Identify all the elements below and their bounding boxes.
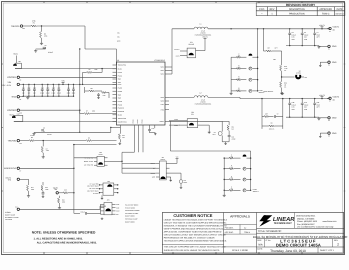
svg-text:IC No.: IC No. [266,239,272,242]
svg-text:OPT: OPT [213,134,216,136]
svg-text:R7: R7 [86,111,88,113]
svg-text:TOM G: TOM G [322,13,330,16]
svg-text:In-Phase: In-Phase [93,193,99,195]
svg-text:R6A: R6A [284,83,287,85]
svg-text:E8: E8 [20,99,22,101]
svg-text:C10: C10 [232,137,235,139]
svg-text:GND: GND [152,177,155,179]
svg-text:E13: E13 [15,207,18,209]
svg-text:SHEET 1 OF 1: SHEET 1 OF 1 [320,249,335,252]
svg-text:MODE: SYNC: MODE: SYNC [84,161,93,163]
svg-text:CLKOUT: CLKOUT [174,49,179,51]
svg-text:E7: E7 [20,170,22,172]
svg-text:APPLICATION. COMPONENT SUBSTI: APPLICATION. COMPONENT SUBSTITUTION AND … [164,231,222,234]
svg-text:CIRCUIT BOARD LAYOUT MAY SIGNI: CIRCUIT BOARD LAYOUT MAY SIGNIFICANTLY A… [164,234,227,237]
svg-text:HI: Vout2 TRK: HI: Vout2 TRK [90,183,99,185]
svg-text:GND: GND [332,45,337,48]
svg-text:MODE/SYNC: MODE/SYNC [4,167,17,170]
svg-text:2.0: 2.0 [238,89,240,91]
svg-text:PGBL: PGBL [184,182,188,184]
svg-text:HI: SYNC PU: HI: SYNC PU [84,158,93,160]
svg-text:0.01uF: 0.01uF [81,212,85,214]
svg-text:DATE:: DATE: [257,247,263,250]
svg-text:CLKIN: CLKIN [176,56,180,58]
svg-text:R15: R15 [64,189,67,191]
svg-text:TP: TP [277,113,279,115]
svg-text:13k: 13k [232,129,235,131]
svg-text:R10: R10 [103,95,106,97]
svg-text:GND: GND [332,132,337,135]
svg-text:AJ: AJ [244,226,246,229]
svg-text:E5: E5 [328,120,330,122]
svg-text:GND: GND [332,61,337,64]
svg-text:06-03-10: 06-03-10 [336,13,345,16]
svg-text:10k: 10k [122,137,125,139]
svg-text:R16: R16 [62,200,65,202]
svg-text:INTERNAL CLAMP: INTERNAL CLAMP [125,219,137,221]
svg-text:NOTE: UNLESS OTHERWISE SPECIFI: NOTE: UNLESS OTHERWISE SPECIFIED [32,230,96,234]
svg-text:PCB DES.: PCB DES. [225,226,234,229]
svg-text:PGND: PGND [137,119,139,123]
svg-text:PGOOD1: PGOOD1 [7,76,17,79]
svg-text:E12: E12 [20,143,23,145]
svg-text:PERFORMANCE OR RELIABILITY. C: PERFORMANCE OR RELIABILITY. CONTACT LINE… [164,237,215,240]
svg-text:VOUT2: VOUT2 [319,94,325,97]
svg-text:R4: R4 [46,148,48,150]
svg-text:E4: E4 [329,101,331,103]
svg-text:GND: GND [12,96,17,99]
svg-text:OPT: OPT [275,48,278,50]
svg-text:TOM H: TOM H [244,231,251,234]
svg-text:R6: R6 [88,137,90,139]
svg-text:TITLE: SCHEMATIC: TITLE: SCHEMATIC [258,230,282,233]
svg-text:PGND: PGND [141,119,143,123]
svg-text:DATE: DATE [337,8,343,11]
svg-text:TRK/SS2: TRK/SS2 [8,139,18,142]
svg-text:OPT: OPT [265,113,268,115]
svg-text:REVISION HISTORY: REVISION HISTORY [286,3,316,7]
svg-text:PGOOD2: PGOOD2 [7,109,17,112]
svg-text:E3: E3 [328,65,330,67]
svg-text:LO: SYNC PD: LO: SYNC PD [84,164,93,166]
svg-text:APP ENG.: APP ENG. [225,231,234,234]
svg-text:TP1: TP1 [184,180,187,182]
svg-text:2N7002: 2N7002 [296,73,301,75]
svg-text:TECHNOLOGY: TECHNOLOGY [274,222,293,225]
svg-text:2: 2 [337,242,339,246]
svg-text:EXTERNAL CLAMP:: EXTERNAL CLAMP: [125,213,139,215]
svg-text:ECO: ECO [259,8,264,11]
svg-text:100k: 100k [31,189,34,191]
svg-text:1. ALL RESISTORS ARE IN OHMS,: 1. ALL RESISTORS ARE IN OHMS, 0603. [34,237,84,240]
svg-text:SCALE = NONE: SCALE = NONE [232,249,249,252]
svg-text:47.5k: 47.5k [284,68,288,70]
svg-text:TECHNOLOGY APPLICATIONS ENGINE: TECHNOLOGY APPLICATIONS ENGINEERING FOR … [164,240,228,243]
svg-text:www.linear.com: www.linear.com [323,220,337,223]
svg-text:100k: 100k [94,69,97,71]
svg-text:PULSE SKIP MODE:: PULSE SKIP MODE: [125,205,139,207]
svg-text:R17: R17 [268,48,271,50]
svg-text:R14: R14 [31,187,34,189]
svg-text:COMP: COMP [174,119,178,121]
svg-text:R11: R11 [232,127,235,129]
svg-text:R5: R5 [89,69,91,71]
svg-text:E9: E9 [20,79,22,81]
svg-text:C25: C25 [152,128,155,130]
svg-text:LINEAR TECHNOLOGY HAS MADE A B: LINEAR TECHNOLOGY HAS MADE A BEST EFFORT… [164,218,228,221]
svg-text:2.0: 2.0 [238,78,240,80]
svg-text:VOUT1: VOUT1 [319,24,325,27]
svg-text:BURST MODE:: BURST MODE: [125,221,136,223]
svg-text:R13: R13 [45,187,48,189]
svg-text:100k: 100k [62,201,65,203]
svg-text:R6B: R6B [284,66,287,68]
svg-text:2.0: 2.0 [231,166,233,168]
svg-text:(OUT OF PHASE): (OUT OF PHASE) [87,191,99,193]
svg-text:U1: U1 [117,59,119,62]
svg-text:2.0: 2.0 [238,55,240,57]
svg-text:C9: C9 [214,132,216,134]
svg-text:470k: 470k [46,150,49,152]
svg-text:HOWEVER, IT REMAINS THE CUSTOM: HOWEVER, IT REMAINS THE CUSTOMER'S RESPO… [164,224,227,227]
svg-text:GND: GND [332,117,337,120]
svg-text:DESCRIPTION: DESCRIPTION [289,8,305,11]
svg-text:VERIFY PROPER AND RELIABLE OPE: VERIFY PROPER AND RELIABLE OPERATION IN … [164,227,225,230]
svg-text:LO: Vout2 TRK: LO: Vout2 TRK [89,188,98,190]
svg-text:L1: L1 [200,23,202,26]
svg-text:(OUT OF PHASE): (OUT OF PHASE) [87,186,99,188]
svg-text:VIN: VIN [8,81,12,84]
svg-text:R12: R12 [122,135,125,137]
svg-text:LTC Confidential-For Customer: LTC Confidential-For Customer Use Only [297,226,333,229]
svg-text:220pF: 220pF [232,139,236,141]
svg-text:TRK/SS1: TRK/SS1 [11,25,21,28]
svg-text:100k: 100k [45,189,48,191]
svg-text:Thursday, June 03, 2010: Thursday, June 03, 2010 [270,249,306,253]
svg-text:100k 1%: 100k 1% [269,128,275,130]
svg-text:BURST MODE:: BURST MODE: [125,216,136,218]
svg-text:Phone: (408)432-1900: Phone: (408)432-1900 [297,220,318,223]
svg-text:E1: E1 [329,31,331,33]
svg-text:2.0: 2.0 [238,66,240,68]
svg-text:L2: L2 [200,91,202,94]
svg-text:Fax: (408)434-0507: Fax: (408)434-0507 [297,223,315,226]
svg-text:2.0: 2.0 [231,188,233,190]
svg-text:2.0: 2.0 [231,177,233,179]
svg-text:LTC3615EUF: LTC3615EUF [154,59,166,62]
svg-text:2.0: 2.0 [231,156,233,158]
svg-text:N/A: N/A [258,244,263,247]
svg-text:E6: E6 [328,135,330,137]
svg-text:R8: R8 [271,123,273,125]
svg-text:E10: E10 [20,112,23,114]
svg-text:THIS CIRCUIT IS PROPRIETARY TO: THIS CIRCUIT IS PROPRIETARY TO LINEAR TE… [164,246,226,249]
svg-text:--: -- [261,14,263,16]
svg-text:COMP: COMP [174,125,178,127]
svg-text:SIZE: SIZE [257,239,262,242]
svg-text:E2: E2 [328,49,330,51]
svg-text:SUPPLIED FOR USE WITH LINEAR T: SUPPLIED FOR USE WITH LINEAR TECHNOLOGY … [164,249,221,252]
svg-text:PRODUCTION: PRODUCTION [289,13,305,16]
svg-text:1630 McCarthy Blvd.: 1630 McCarthy Blvd. [296,215,316,218]
svg-text:CIRCUIT THAT MEETS CUSTOMER-SU: CIRCUIT THAT MEETS CUSTOMER-SUPPLIED SPE… [164,221,227,224]
svg-text:VOUT1: VOUT1 [333,26,341,29]
svg-text:ALL CAPACITORS ARE IN MICROFAR: ALL CAPACITORS ARE IN MICROFARADS, 0603. [37,241,97,244]
svg-text:CUSTOMER NOTICE: CUSTOMER NOTICE [173,213,212,218]
svg-text:APPROVED: APPROVED [319,8,332,11]
svg-text:PGND: PGND [133,119,135,123]
svg-text:2.3V - 5.5V: 2.3V - 5.5V [2,84,12,87]
svg-text:REV: REV [270,8,275,11]
svg-text:APPROVALS: APPROVALS [230,215,251,219]
svg-text:TRACK: TRACK [160,159,165,161]
svg-text:Milpitas, CA 95035: Milpitas, CA 95035 [297,217,315,220]
svg-text:100k: 100k [92,111,95,113]
svg-text:VOUT2: VOUT2 [333,96,341,99]
svg-text:CONTINUOUS MODE:: CONTINUOUS MODE: [125,210,140,212]
